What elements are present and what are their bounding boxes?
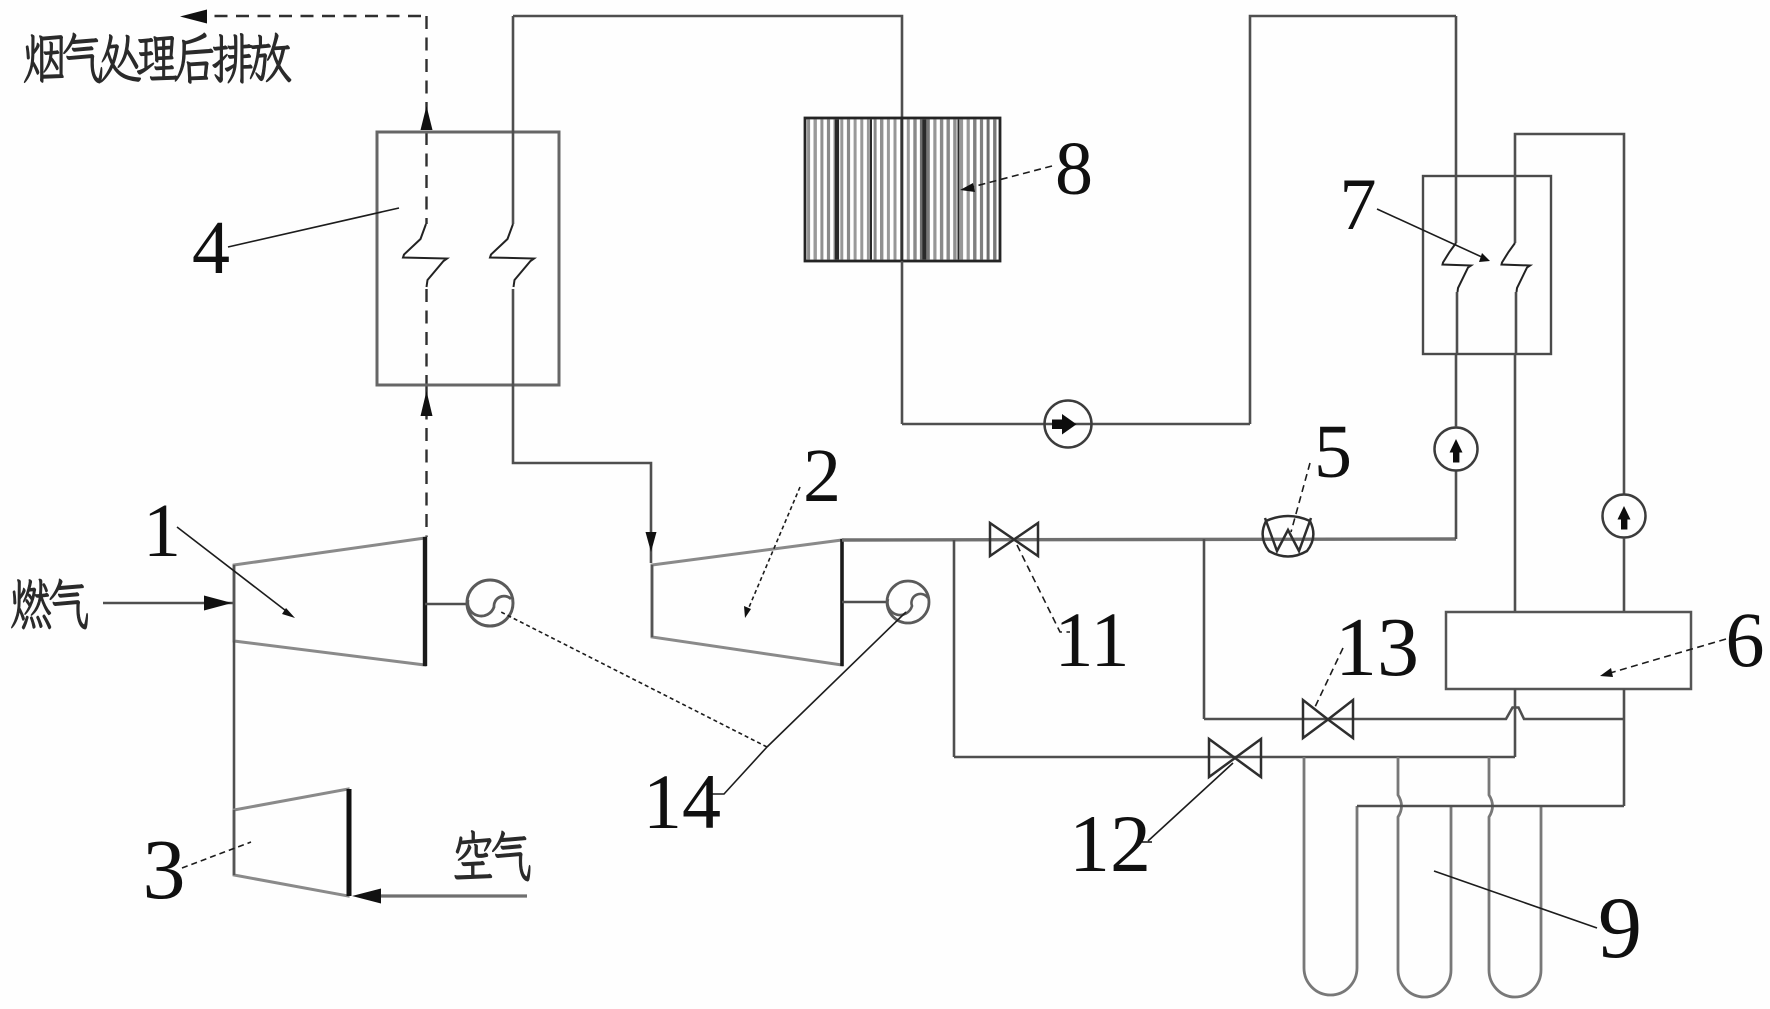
break symbol in heat exchanger 4 (left) — [403, 224, 447, 287]
label 2 leader line — [747, 487, 800, 612]
wire: riser pump to 7 — [1455, 354, 1458, 427]
wire: line from 8 down to condensate header — [901, 261, 904, 424]
arrow: flue flow up into bottom of 4 — [421, 391, 433, 416]
svg-text:7: 7 — [1340, 164, 1377, 246]
wire: shaft line turbine 1 to compressor 3 — [233, 641, 236, 810]
wire: left pass inside 7 (lower) — [1456, 292, 1459, 354]
wire: riser to heat exchanger 7 (left pass) — [1455, 471, 1458, 539]
wire: ground loop return header — [1357, 805, 1624, 808]
arrow: air flow into compressor 3 — [352, 889, 381, 904]
wire: turbine 2 exhaust steam line to right riser — [842, 539, 1456, 540]
wire: left pass inside 7 (upper) — [1455, 176, 1458, 243]
wire: 7 right pass down to heat exchanger 6 — [1514, 354, 1517, 612]
svg-text:4: 4 — [192, 206, 230, 290]
label 13 leader line — [1315, 648, 1343, 707]
label 14 leader to generator 1 — [499, 611, 767, 747]
valve 12 — [1209, 739, 1261, 777]
arrow: flow down into turbine 2 — [646, 532, 657, 552]
heat exchanger 7 body — [1423, 176, 1551, 354]
wire: shaft turbine 2 to generator — [842, 601, 886, 604]
wire: condensate line with pump to right riser — [902, 423, 1250, 426]
label 1 leader line — [177, 527, 290, 614]
wire: dashed flue line inside 4 (lower) — [425, 289, 427, 385]
svg-text:12: 12 — [1069, 798, 1151, 889]
wire: dashed flue riser above heat exchanger 4 — [425, 16, 427, 128]
valve 13 — [1303, 700, 1353, 738]
wire: shaft turbine 1 to generator — [425, 603, 467, 606]
wire: top line from 4 to evaporator 8 — [513, 16, 902, 118]
pump P2 on drop to 6 — [1603, 495, 1646, 538]
svg-text:2: 2 — [803, 434, 841, 518]
svg-text:13: 13 — [1335, 601, 1419, 694]
wire: valve 12 line (turbine branch to 6) — [954, 756, 1515, 759]
label 8 leader line — [972, 166, 1052, 187]
label 5 leader line — [1291, 463, 1310, 532]
svg-text:11: 11 — [1054, 596, 1129, 683]
wire: fuel gas inlet line — [103, 602, 233, 605]
wire: ground loop return riser to 6 — [1623, 689, 1626, 806]
svg-text:9: 9 — [1598, 880, 1642, 977]
arrow: fuel flow into turbine 1 — [204, 596, 232, 611]
gas turbine 1 body — [234, 538, 425, 665]
wire: flue gas exhaust dashed line (top) — [193, 15, 427, 17]
arrow: exhaust direction (left) — [180, 10, 207, 24]
svg-text:8: 8 — [1055, 127, 1093, 211]
wire: left pass above 7 — [1455, 16, 1458, 176]
label: 烟气处理后排放 (flue gas discharged after treatment) — [24, 35, 63, 83]
compressor 3 body — [234, 789, 348, 896]
wire: right riser of ORC loop — [1250, 16, 1456, 424]
ground loop U-tube 3 of 9 (left leg hops return line) — [1489, 757, 1541, 997]
label 4 leader line — [228, 208, 399, 247]
wire: working fluid line inside 4 (upper) — [512, 132, 515, 224]
svg-text:14: 14 — [643, 758, 721, 845]
wire: right pass inside 7 (lower) — [1515, 292, 1518, 354]
svg-text:5: 5 — [1314, 410, 1352, 494]
label 12 leader line — [1148, 763, 1233, 841]
valve 5 (throttle) — [1263, 516, 1314, 557]
break symbol in heat exchanger 4 (right) — [490, 224, 534, 287]
generator of turbine 2 — [887, 581, 929, 623]
wire: dashed flue line inside 4 (upper) — [425, 132, 427, 224]
svg-text:6: 6 — [1726, 596, 1765, 683]
pump P3 on condensate line — [1045, 401, 1092, 448]
wire: working fluid line inside 4 (lower) — [512, 289, 515, 385]
wire: air inlet line — [380, 894, 527, 897]
label 9 leader line — [1434, 871, 1597, 928]
evaporator 8 hatched body — [805, 118, 1000, 261]
heat exchanger 6 body — [1446, 612, 1691, 689]
label 14 leader stem — [712, 747, 767, 794]
wire: working fluid line below 4 to turbine 2 inlet — [513, 385, 651, 563]
wire: working fluid line above 4 — [512, 16, 515, 132]
break symbol in 7 (right) — [1502, 243, 1531, 292]
valve 11 — [990, 523, 1038, 556]
break symbol in 7 (left) — [1443, 243, 1472, 292]
label 11 leader line — [1017, 545, 1070, 632]
steam turbine 2 body — [652, 540, 842, 665]
label 7 leader line — [1377, 209, 1484, 258]
pump P1 on riser — [1435, 428, 1478, 471]
label: 空气 (air) — [455, 830, 492, 879]
wire: riser from steam line down to valve 13 line — [1203, 539, 1206, 719]
wire: jumper from 7 top to right drop — [1515, 134, 1624, 494]
wire: right pass inside 7 (upper) — [1514, 176, 1517, 243]
label 14 leader to generator 2 — [767, 612, 906, 747]
node: branch to valve 12 line — [953, 540, 956, 757]
label 3 leader line — [182, 842, 251, 868]
arrow: flue flow up into top of 4 — [421, 106, 433, 130]
wire: valve 13 line with hop over 6 outlet — [1204, 708, 1624, 720]
svg-text:1: 1 — [143, 489, 181, 573]
label: 燃气 (fuel gas) — [11, 579, 51, 629]
heat exchanger 4 (flue gas recuperator) body — [377, 132, 559, 385]
svg-text:3: 3 — [143, 821, 186, 917]
label 6 leader line — [1610, 639, 1726, 673]
wire: 6 outlet down across valve 13 line to valve 12 line — [1514, 689, 1517, 757]
generator of turbine 1 — [467, 580, 513, 626]
ground loop U-tube 1 of 9 — [1304, 757, 1357, 995]
ground loop U-tube 2 of 9 (left leg hops return line) — [1398, 757, 1451, 997]
wire: pump P2 to heat exchanger 6 — [1623, 538, 1626, 612]
wire: dashed flue line below 4 (from gas turbine 1 exhaust) — [425, 385, 427, 537]
